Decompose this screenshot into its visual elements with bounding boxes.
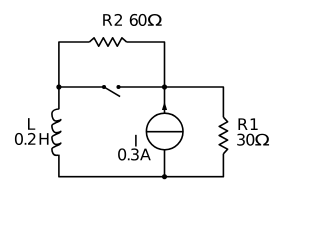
current source I top lead: [164, 87, 166, 113]
current source I arrow: [162, 102, 167, 111]
label R2: [103, 14, 122, 26]
wire middle to right corner and down to R1: [165, 87, 224, 117]
wire middle-right: switch to junction: [119, 86, 165, 88]
switch SW blade: [104, 87, 120, 97]
wire middle-left: junction to switch: [59, 86, 104, 88]
label L: [28, 118, 35, 130]
switch contact dot 2: [116, 85, 120, 89]
label 30ohm: [237, 134, 269, 146]
switch contact dot 1: [102, 85, 106, 89]
inductor L coil: [52, 109, 61, 155]
node dot bottom junction: [162, 174, 167, 179]
resistor R1: [219, 117, 227, 154]
current source I bar: [146, 131, 183, 133]
label 0.3A: [118, 148, 151, 160]
wire bottom-left: junction to corner, up to inductor: [59, 155, 165, 177]
label I: [135, 135, 137, 147]
wire left-middle: junction down to inductor: [58, 87, 60, 109]
label 60ohm: [130, 14, 162, 26]
current source I circle: [146, 113, 183, 150]
resistor R2: [89, 38, 126, 46]
node dot middle junction: [162, 84, 167, 89]
node dot left junction: [56, 84, 61, 89]
wire top-left: left vertical up from junction, top wire to R2: [59, 42, 90, 87]
label 0.2H: [15, 133, 49, 145]
wire right-bottom: R1 down to corner, left to bottom junction: [165, 154, 224, 177]
current source I bottom lead: [164, 150, 166, 177]
wire top-right: from R2 to corner and down to junction: [127, 42, 165, 87]
label R1: [239, 118, 258, 130]
